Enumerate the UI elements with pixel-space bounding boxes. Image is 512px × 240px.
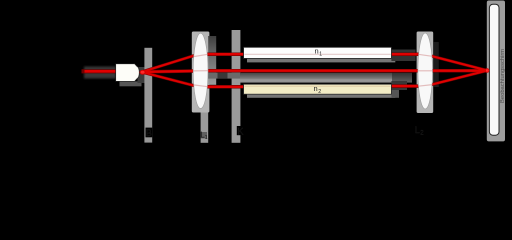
- svg-text:L: L: [415, 125, 420, 135]
- svg-text:2: 2: [318, 89, 321, 95]
- svg-text:K: K: [237, 126, 243, 136]
- svg-text:n: n: [315, 47, 319, 56]
- svg-text:B: B: [146, 128, 152, 138]
- svg-text:1: 1: [205, 135, 208, 141]
- svg-text:Beobachtungsschirm: Beobachtungsschirm: [500, 49, 506, 103]
- svg-text:n: n: [314, 84, 318, 93]
- svg-text:1: 1: [319, 51, 322, 57]
